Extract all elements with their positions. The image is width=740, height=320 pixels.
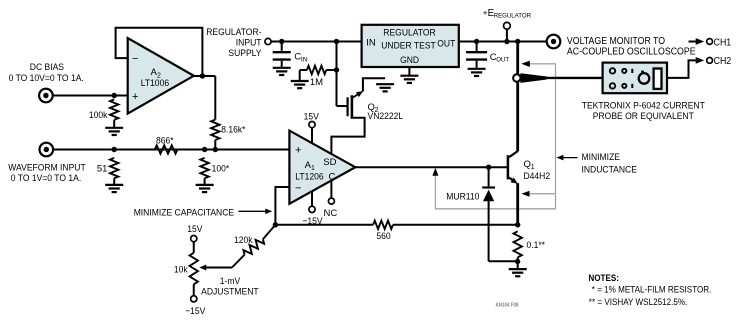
svg-text:INPUT: INPUT xyxy=(236,38,262,49)
svg-text:8.16k*: 8.16k* xyxy=(221,124,245,135)
svg-text:WAVEFORM INPUT: WAVEFORM INPUT xyxy=(8,163,86,174)
svg-text:GND: GND xyxy=(400,55,419,66)
svg-text:VOLTAGE MONITOR TO: VOLTAGE MONITOR TO xyxy=(567,36,666,47)
svg-text:AN104 F08: AN104 F08 xyxy=(496,302,519,308)
svg-text:−: − xyxy=(132,53,138,65)
svg-text:VN2222L: VN2222L xyxy=(368,111,404,122)
svg-text:** = VISHAY WSL2512.5%.: ** = VISHAY WSL2512.5%. xyxy=(589,297,688,307)
svg-text:120k: 120k xyxy=(234,235,253,246)
svg-text:10k: 10k xyxy=(174,264,188,275)
svg-text:LT1206: LT1206 xyxy=(295,172,323,183)
svg-text:REGULATOR: REGULATOR xyxy=(383,28,436,39)
svg-text:IN: IN xyxy=(301,56,308,63)
svg-text:OUT: OUT xyxy=(437,38,455,49)
svg-text:100*: 100* xyxy=(212,163,230,174)
svg-text:INDUCTANCE: INDUCTANCE xyxy=(582,165,637,176)
svg-text:560: 560 xyxy=(376,231,390,242)
svg-text:+: + xyxy=(132,91,138,103)
svg-text:SD: SD xyxy=(323,157,336,168)
svg-text:UNDER TEST: UNDER TEST xyxy=(381,41,436,52)
svg-text:OUT: OUT xyxy=(496,57,509,64)
svg-text:−: − xyxy=(295,183,301,195)
svg-text:51: 51 xyxy=(97,163,108,174)
svg-text:SUPPLY: SUPPLY xyxy=(228,48,262,59)
svg-text:−15V: −15V xyxy=(302,216,323,227)
svg-text:REGULATOR: REGULATOR xyxy=(494,12,531,19)
svg-text:NC: NC xyxy=(324,208,338,219)
svg-text:C: C xyxy=(328,172,335,183)
svg-text:15V: 15V xyxy=(304,112,320,123)
svg-text:TEKTRONIX P-6042 CURRENT: TEKTRONIX P-6042 CURRENT xyxy=(582,100,705,111)
svg-text:CH1: CH1 xyxy=(714,37,732,48)
svg-text:0.1**: 0.1** xyxy=(527,240,546,251)
svg-text:MINIMIZE CAPACITANCE: MINIMIZE CAPACITANCE xyxy=(134,208,234,219)
svg-text:ADJUSTMENT: ADJUSTMENT xyxy=(201,287,259,298)
svg-text:LT1006: LT1006 xyxy=(141,78,169,89)
svg-text:15V: 15V xyxy=(187,224,203,235)
svg-text:866*: 866* xyxy=(156,135,174,146)
svg-text:CH2: CH2 xyxy=(714,56,732,67)
svg-text:1M: 1M xyxy=(310,77,323,88)
svg-text:PROBE OR EQUIVALENT: PROBE OR EQUIVALENT xyxy=(593,111,694,122)
svg-text:100k: 100k xyxy=(89,110,108,121)
svg-text:IN: IN xyxy=(366,38,376,49)
svg-text:0 TO 1V=0 TO 1A.: 0 TO 1V=0 TO 1A. xyxy=(11,173,81,184)
svg-text:* = 1% METAL-FILM RESISTOR.: * = 1% METAL-FILM RESISTOR. xyxy=(592,284,712,294)
svg-text:NOTES:: NOTES: xyxy=(588,273,619,283)
svg-text:−15V: −15V xyxy=(185,306,206,317)
svg-text:MUR110: MUR110 xyxy=(446,191,479,202)
svg-text:D44H2: D44H2 xyxy=(524,171,551,182)
svg-text:0 TO 10V=0 TO 1A.: 0 TO 10V=0 TO 1A. xyxy=(9,73,84,84)
svg-text:REGULATOR-: REGULATOR- xyxy=(206,27,261,38)
svg-text:+: + xyxy=(295,145,301,157)
svg-text:AC-COUPLED OSCILLOSCOPE: AC-COUPLED OSCILLOSCOPE xyxy=(567,47,696,58)
svg-text:MINIMIZE: MINIMIZE xyxy=(582,152,621,163)
svg-text:DC BIAS: DC BIAS xyxy=(30,62,64,73)
